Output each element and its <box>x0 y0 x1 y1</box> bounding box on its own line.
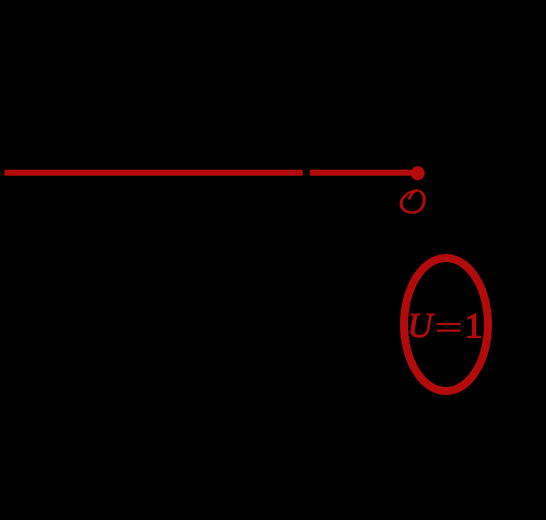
svg-text:U: U <box>408 306 436 345</box>
svg-text:1: 1 <box>465 305 483 345</box>
